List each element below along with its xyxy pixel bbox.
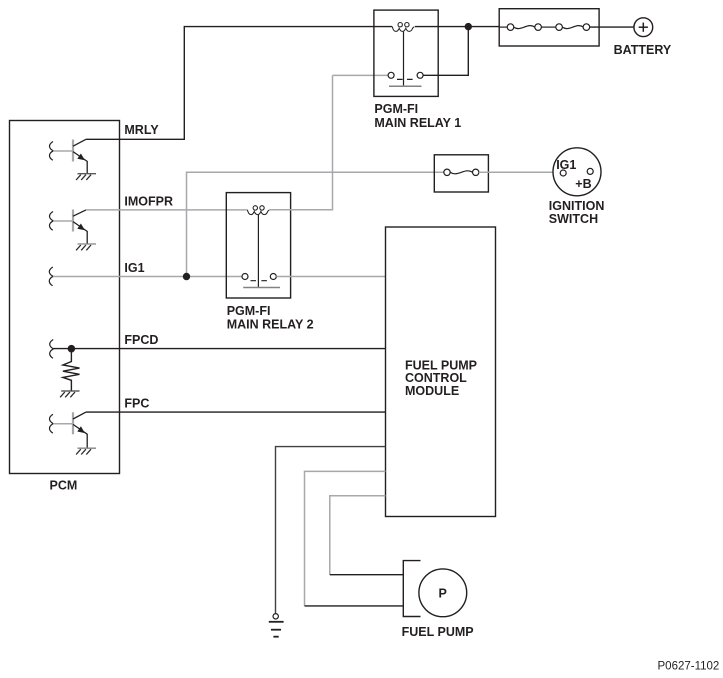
fuse box (battery fuses) (499, 9, 599, 46)
relay U1 armature link (403, 32, 405, 86)
ground (R1) (60, 391, 79, 397)
wire relay1 left contact (333, 74, 389, 76)
ignition switch (553, 148, 601, 196)
connector pin squiggle (FPC base) (49, 414, 53, 433)
svg-text:+B: +B (575, 177, 591, 191)
fuel pump motor M1 (419, 569, 467, 617)
wire module to fuel pump (negative) (305, 471, 386, 606)
fuel pump control module box (386, 227, 496, 517)
svg-text:SWITCH: SWITCH (549, 212, 598, 226)
wire fuel pump negative lead (305, 605, 404, 607)
svg-text:P0627-1102: P0627-1102 (658, 661, 720, 673)
battery symbol (634, 18, 653, 37)
wire relay1 output contact (423, 27, 468, 76)
relay U2 armature link (257, 215, 259, 287)
relay U1: PGM-FI MAIN RELAY 1 box (374, 10, 438, 96)
svg-text:IMOFPR: IMOFPR (124, 195, 173, 209)
svg-text:FPCD: FPCD (124, 333, 158, 347)
wire IG1 (PCM to relay 2 contact) (53, 276, 242, 278)
junction node (IG1 branch) (183, 273, 190, 280)
svg-text:FUEL PUMP: FUEL PUMP (402, 625, 474, 639)
svg-text:P: P (439, 586, 447, 600)
relay U1 contact bar (389, 85, 422, 87)
svg-text:MAIN RELAY 2: MAIN RELAY 2 (227, 318, 314, 332)
fuel pump bracket (403, 561, 420, 617)
svg-text:PGM-FI: PGM-FI (227, 304, 271, 318)
wire module to chassis ground (276, 447, 386, 614)
svg-text:MAIN RELAY 1: MAIN RELAY 1 (374, 116, 461, 130)
relay U2 contact dashes (251, 280, 267, 282)
wire fuse box to battery (590, 26, 634, 28)
transistor Q1 (MRLY driver) (73, 139, 87, 173)
connector pin squiggle (IG1) (49, 267, 53, 286)
relay U1 contact dashes (397, 78, 413, 80)
connector pin squiggle (MRLY base) (49, 142, 53, 161)
wire (Q1 base) (53, 150, 73, 152)
wire relay2 coil to relay1 contact (269, 75, 332, 209)
resistor R1 (FPCD pull-down) (63, 352, 80, 391)
svg-text:BATTERY: BATTERY (614, 43, 672, 57)
svg-text:IG1: IG1 (124, 261, 144, 275)
svg-text:FPC: FPC (124, 397, 149, 411)
svg-text:IG1: IG1 (556, 158, 576, 172)
connector pin squiggle (IMOFPR base) (49, 212, 53, 231)
wire IG1 branch to fuse (riser) (187, 172, 444, 276)
relay U2 contact circles (242, 274, 248, 280)
svg-text:MRLY: MRLY (124, 123, 159, 137)
wire FPC (PCM to fuel pump control module) (86, 411, 386, 413)
ground (module, with terminal ring) (269, 614, 284, 637)
svg-text:MODULE: MODULE (405, 384, 459, 398)
wire FPCD (PCM to fuel pump control module) (53, 348, 385, 350)
fuse F2 (556, 24, 590, 31)
PCM box (10, 121, 120, 474)
wire between fuses (541, 26, 555, 28)
svg-text:PCM: PCM (50, 479, 78, 493)
transistor Q2 (IMOFPR driver) (73, 210, 87, 244)
relay U2: PGM-FI MAIN RELAY 2 box (226, 193, 290, 298)
wire relay2 output to fuel pump control module (276, 276, 385, 278)
junction node (relay1 output) (465, 23, 472, 30)
wire IMOFPR (PCM to relay 2 coil) (86, 209, 247, 211)
transistor Q3 (FPC driver) (73, 412, 87, 448)
fuse box (ignition fuse) (434, 155, 488, 192)
relay U1 contact circles (388, 72, 394, 78)
wire fuse to ignition switch (479, 171, 553, 173)
wire (Q3 base) (53, 423, 73, 425)
fuse F3 (444, 169, 479, 175)
svg-text:PGM-FI: PGM-FI (374, 102, 418, 116)
wire stub into fuse box (499, 26, 507, 28)
ground (Q1 emitter) (76, 174, 96, 180)
wire module to fuel pump (positive) (330, 496, 386, 575)
relay U1 coil (392, 23, 414, 32)
junction node (FPCD pull-down) (68, 345, 76, 353)
relay U2 coil (247, 206, 269, 215)
wire relay1 coil to battery fuse (415, 26, 499, 28)
ground (Q2 emitter) (76, 244, 96, 250)
connector pin squiggle (FPCD) (50, 340, 54, 359)
wire (Q2 base) (53, 220, 73, 222)
fuse F1 (507, 24, 541, 31)
ground (Q3 emitter) (76, 448, 96, 454)
wire MRLY (PCM to relay 1 coil) (86, 27, 392, 140)
wire fuel pump positive lead (330, 574, 404, 576)
relay U2 contact bar (243, 287, 280, 289)
